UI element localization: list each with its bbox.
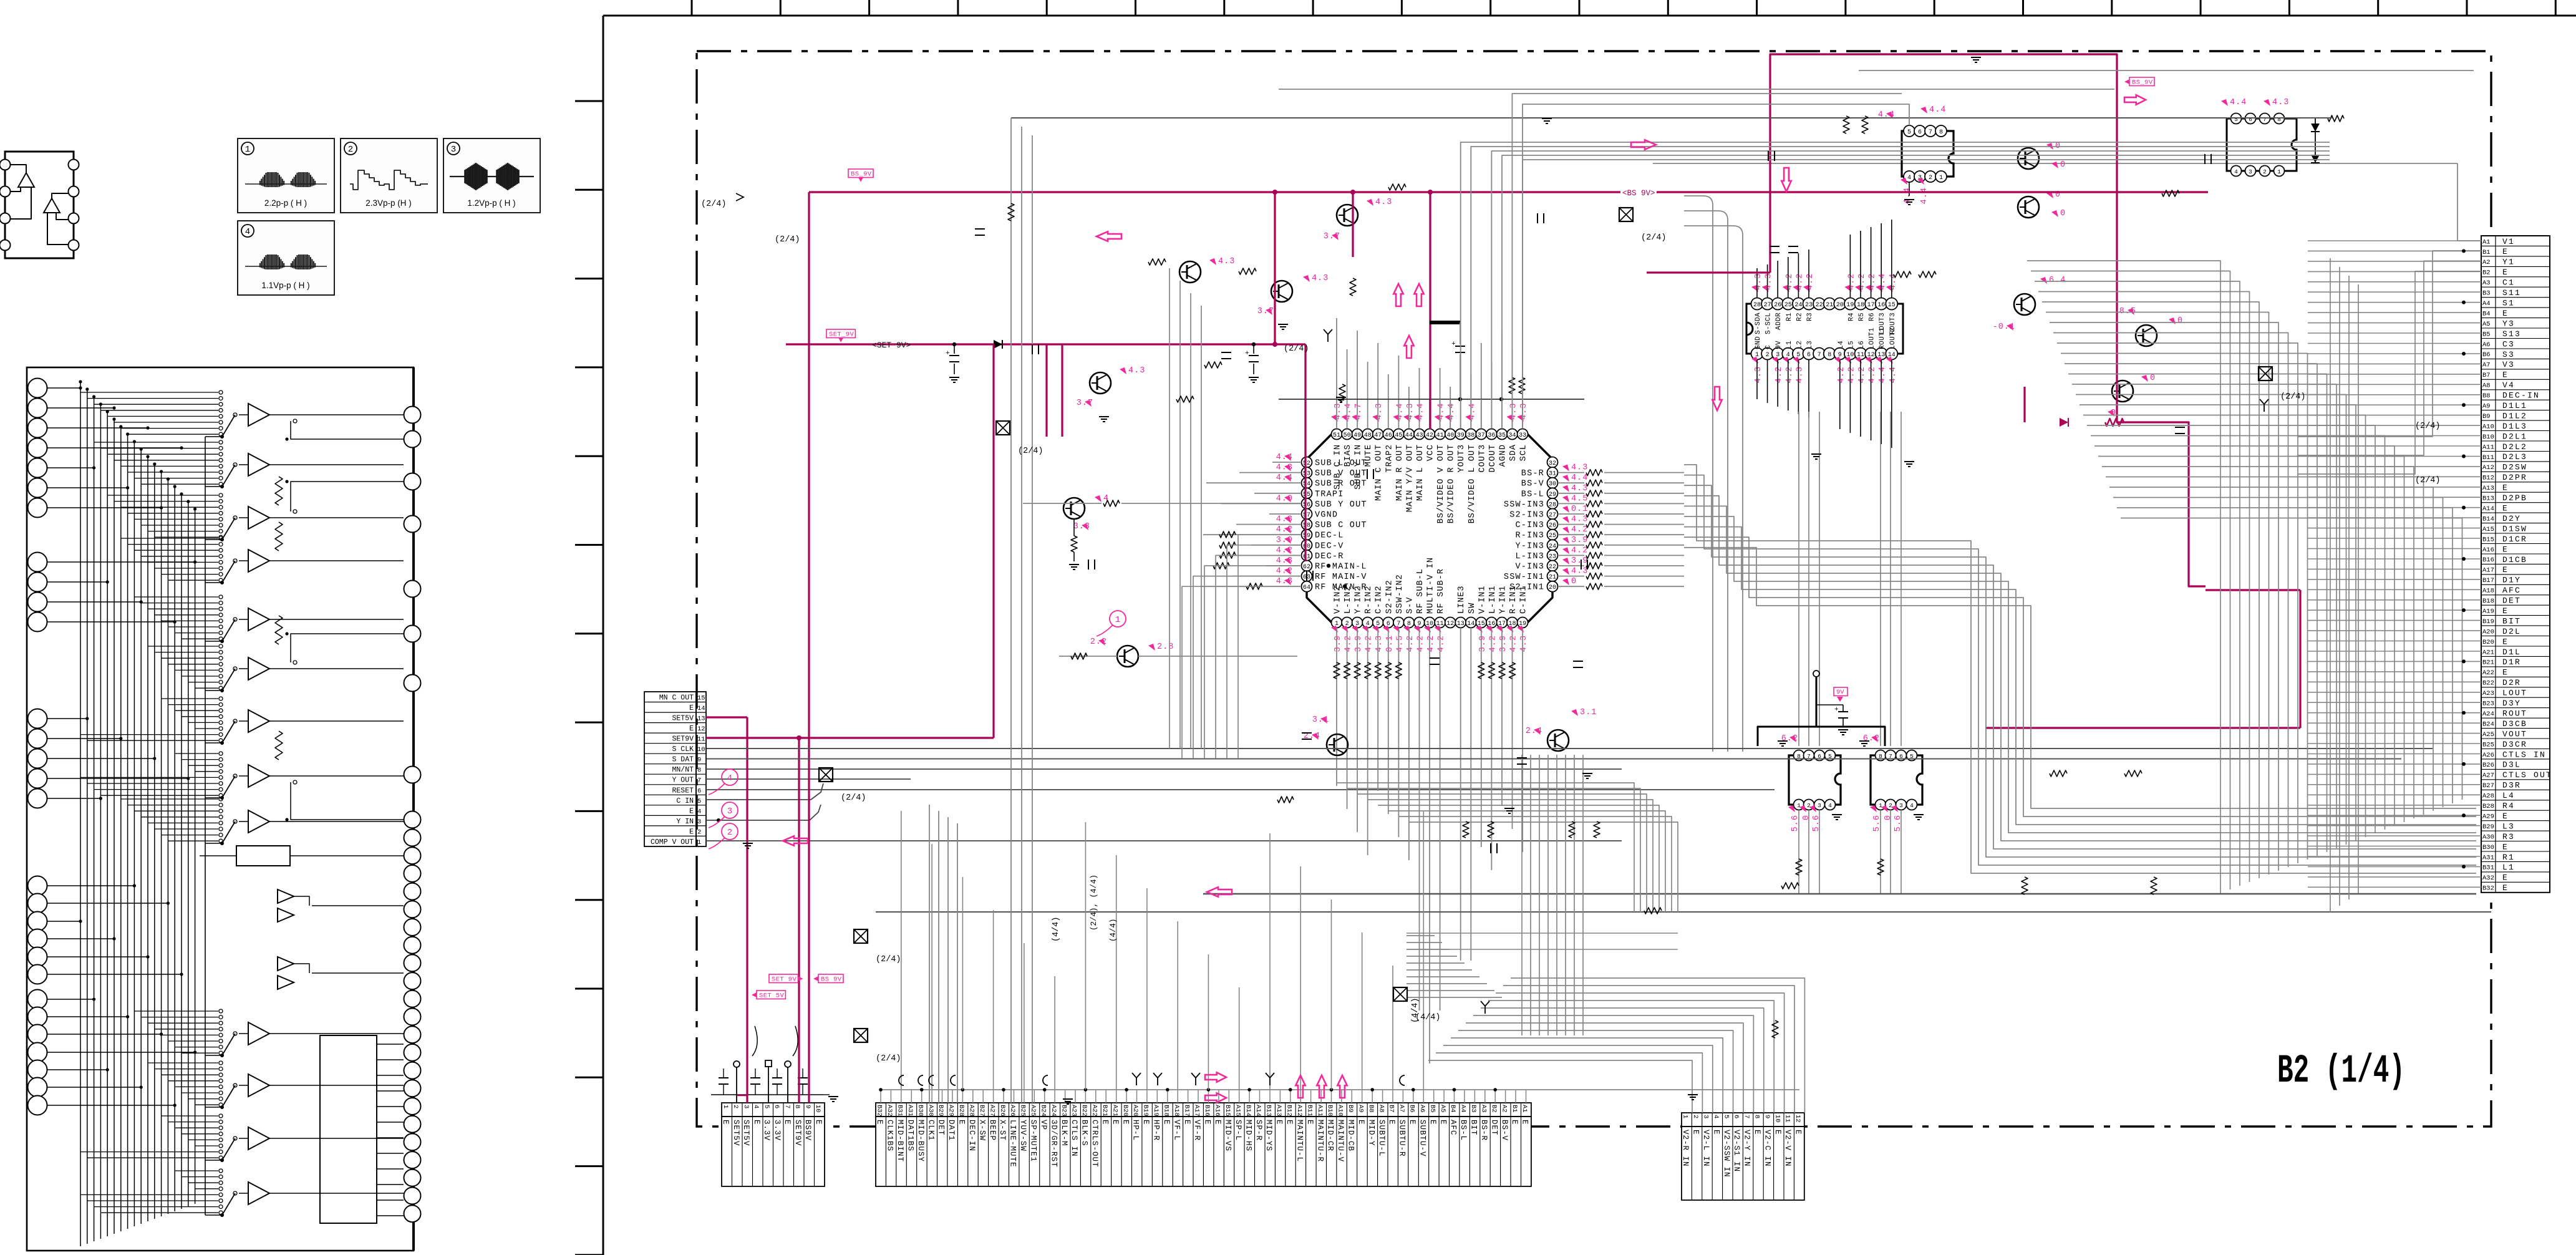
svg-text:MID-VS: MID-VS bbox=[1224, 1120, 1232, 1151]
svg-text:A8: A8 bbox=[2482, 382, 2491, 390]
svg-text:4.3: 4.3 bbox=[1375, 198, 1392, 207]
svg-text:A20: A20 bbox=[1131, 1105, 1139, 1117]
svg-text:SCL: SCL bbox=[1519, 444, 1529, 461]
svg-text:B10: B10 bbox=[2482, 434, 2494, 441]
svg-text:44: 44 bbox=[1405, 432, 1413, 439]
svg-text:A5: A5 bbox=[2482, 321, 2491, 328]
svg-text:R4: R4 bbox=[1847, 313, 1855, 321]
svg-text:E: E bbox=[1275, 1120, 1284, 1125]
svg-text:(2/4): (2/4) bbox=[876, 1054, 901, 1064]
svg-text:AGND: AGND bbox=[1499, 444, 1508, 467]
svg-text:9: 9 bbox=[697, 757, 701, 764]
svg-text:VP: VP bbox=[1039, 1120, 1048, 1130]
svg-text:1: 1 bbox=[1939, 175, 1943, 182]
svg-text:R6: R6 bbox=[1869, 313, 1876, 321]
svg-text:Y IN: Y IN bbox=[676, 818, 694, 826]
svg-text:4.2: 4.2 bbox=[1857, 273, 1867, 290]
svg-text:8: 8 bbox=[1753, 1115, 1761, 1118]
svg-text:R3: R3 bbox=[1806, 313, 1814, 321]
svg-text:6.4: 6.4 bbox=[2049, 276, 2066, 285]
svg-text:E: E bbox=[1183, 1120, 1191, 1125]
svg-text:L-IN3: L-IN3 bbox=[1515, 552, 1544, 561]
svg-text:S-V: S-V bbox=[1405, 597, 1415, 614]
svg-text:0: 0 bbox=[2150, 374, 2156, 383]
svg-text:DEC-L: DEC-L bbox=[1315, 531, 1344, 541]
svg-text:MAIN Y/V OUT: MAIN Y/V OUT bbox=[1405, 444, 1415, 512]
CN2 area parts bbox=[711, 1026, 838, 1103]
svg-text:2.4: 2.4 bbox=[1526, 727, 1542, 736]
svg-text:RF MAIN-V: RF MAIN-V bbox=[1315, 573, 1367, 582]
svg-text:7: 7 bbox=[1929, 129, 1932, 136]
svg-text:46: 46 bbox=[1385, 432, 1392, 439]
svg-text:CTLS IN: CTLS IN bbox=[2502, 750, 2546, 759]
svg-text:B31: B31 bbox=[896, 1105, 904, 1117]
svg-text:27: 27 bbox=[1764, 302, 1771, 309]
svg-text:D1L: D1L bbox=[2502, 647, 2521, 657]
svg-text:S13: S13 bbox=[2502, 329, 2521, 339]
board outline dash-dot border bbox=[697, 51, 2491, 1127]
svg-text:BS/VIDEO R OUT: BS/VIDEO R OUT bbox=[1447, 444, 1456, 523]
IC301/302 bottom wires bbox=[1796, 811, 1901, 894]
svg-text:4.2: 4.2 bbox=[1344, 635, 1353, 652]
svg-text:60: 60 bbox=[1303, 543, 1310, 550]
svg-text:B7: B7 bbox=[2482, 372, 2491, 379]
svg-text:E: E bbox=[1203, 1120, 1212, 1125]
svg-text:BS 9V: BS 9V bbox=[821, 976, 842, 984]
svg-text:62: 62 bbox=[1303, 564, 1310, 571]
svg-text:YOUT3: YOUT3 bbox=[1457, 444, 1466, 473]
svg-text:12: 12 bbox=[1794, 1115, 1801, 1123]
svg-text:V-IN2: V-IN2 bbox=[1334, 585, 1343, 614]
svg-text:61: 61 bbox=[1303, 553, 1310, 560]
svg-text:B32: B32 bbox=[876, 1105, 883, 1117]
svg-text:13: 13 bbox=[1457, 621, 1465, 627]
sheet frame left border bbox=[603, 16, 604, 1255]
IC201 top pin wires bbox=[1337, 318, 1523, 428]
svg-text:1: 1 bbox=[697, 839, 701, 846]
svg-text:3.1: 3.1 bbox=[1580, 708, 1597, 717]
svg-text:E: E bbox=[689, 807, 694, 815]
IC IC204 (8-pin) bbox=[2221, 98, 2344, 177]
svg-text:4.3: 4.3 bbox=[1334, 403, 1343, 420]
svg-text:E: E bbox=[1438, 1120, 1447, 1125]
svg-text:(2/4): (2/4) bbox=[841, 793, 866, 803]
svg-text:4.2: 4.2 bbox=[1785, 273, 1794, 290]
svg-text:A23: A23 bbox=[2482, 690, 2494, 697]
svg-text:S-SCL: S-SCL bbox=[1765, 313, 1773, 334]
svg-text:4.2: 4.2 bbox=[1571, 525, 1588, 535]
transistor Q201 bbox=[1179, 261, 1201, 283]
svg-text:3.9: 3.9 bbox=[1334, 635, 1343, 652]
svg-text:64: 64 bbox=[1303, 584, 1310, 591]
svg-text:E: E bbox=[1111, 1120, 1120, 1125]
svg-text:MAINTU-L: MAINTU-L bbox=[1295, 1120, 1304, 1162]
svg-text:R1: R1 bbox=[2502, 853, 2515, 862]
wires from CN rows bbox=[706, 769, 1775, 841]
svg-text:3.9: 3.9 bbox=[1478, 635, 1488, 652]
svg-text:2: 2 bbox=[1807, 802, 1811, 809]
svg-text:5: 5 bbox=[1722, 1115, 1730, 1118]
svg-text:B2: B2 bbox=[2482, 269, 2491, 277]
svg-text:Y-IN2: Y-IN2 bbox=[1354, 585, 1363, 614]
svg-text:E: E bbox=[1213, 1120, 1222, 1125]
svg-text:B7: B7 bbox=[1388, 1105, 1395, 1113]
svg-text:BS-L: BS-L bbox=[1459, 1120, 1468, 1141]
IC201 left pin wires bbox=[1200, 462, 1300, 586]
svg-text:A23: A23 bbox=[1070, 1105, 1078, 1117]
svg-text:BS/VIDEO V OUT: BS/VIDEO V OUT bbox=[1436, 444, 1446, 523]
svg-text:ROUT: ROUT bbox=[2502, 709, 2527, 719]
svg-text:A21: A21 bbox=[2482, 649, 2494, 656]
connector (V2 input, 12-pin) bbox=[1682, 1113, 1804, 1200]
bus right verticals bbox=[1407, 258, 2358, 949]
svg-text:BLK-S: BLK-S bbox=[1080, 1120, 1089, 1146]
svg-text:B25: B25 bbox=[2482, 741, 2494, 749]
svg-text:B6: B6 bbox=[2482, 351, 2491, 359]
svg-text:V2-L IN: V2-L IN bbox=[1702, 1130, 1710, 1167]
svg-text:B8: B8 bbox=[2482, 392, 2491, 400]
svg-text:R1: R1 bbox=[1786, 313, 1793, 321]
svg-text:E: E bbox=[1408, 1120, 1416, 1125]
svg-text:A18: A18 bbox=[2482, 588, 2494, 595]
svg-text:SET_9V: SET_9V bbox=[829, 331, 855, 339]
svg-text:C: C bbox=[1765, 345, 1773, 349]
svg-text:B11: B11 bbox=[2482, 454, 2494, 462]
svg-text:A2: A2 bbox=[2482, 259, 2491, 266]
svg-text:B22: B22 bbox=[2482, 680, 2494, 687]
svg-text:LINE-MUTE: LINE-MUTE bbox=[1009, 1120, 1017, 1168]
power rail BS_9V horizontal bbox=[809, 191, 2208, 193]
svg-text:A4: A4 bbox=[2482, 300, 2491, 308]
svg-text:4.2: 4.2 bbox=[1509, 635, 1519, 652]
svg-text:2: 2 bbox=[1929, 175, 1932, 182]
svg-text:BLK-M: BLK-M bbox=[1060, 1120, 1068, 1146]
waveform legend 4 bbox=[238, 221, 334, 295]
svg-text:18: 18 bbox=[1857, 302, 1864, 309]
svg-text:C IN: C IN bbox=[676, 797, 694, 805]
svg-text:3.3V: 3.3V bbox=[773, 1120, 782, 1141]
svg-text:MAIN L OUT: MAIN L OUT bbox=[1416, 444, 1425, 501]
svg-text:E: E bbox=[1521, 1120, 1529, 1125]
svg-text:35: 35 bbox=[1498, 432, 1506, 439]
svg-text:A22: A22 bbox=[2482, 669, 2494, 677]
svg-text:B8: B8 bbox=[1367, 1105, 1375, 1113]
svg-text:DET: DET bbox=[1489, 1120, 1498, 1136]
svg-text:E: E bbox=[689, 725, 694, 733]
svg-text:S1: S1 bbox=[2502, 299, 2515, 308]
svg-text:4.3: 4.3 bbox=[1406, 403, 1415, 420]
svg-text:D1Y: D1Y bbox=[2502, 576, 2521, 585]
svg-text:A19: A19 bbox=[2482, 608, 2494, 616]
svg-text:E: E bbox=[689, 704, 694, 712]
svg-text:V4: V4 bbox=[2502, 380, 2515, 390]
svg-text:4: 4 bbox=[1907, 175, 1911, 182]
svg-text:D1L3: D1L3 bbox=[2502, 422, 2527, 431]
svg-text:V1: V1 bbox=[2502, 237, 2515, 246]
svg-text:2: 2 bbox=[1889, 802, 1892, 809]
power rail top-right loop bbox=[1770, 54, 2206, 586]
svg-text:3.9: 3.9 bbox=[1571, 556, 1588, 566]
svg-text:A7: A7 bbox=[1398, 1105, 1405, 1113]
svg-text:48: 48 bbox=[1364, 432, 1372, 439]
transistor Q202 bbox=[1271, 281, 1292, 302]
svg-text:A14: A14 bbox=[1254, 1105, 1262, 1117]
svg-text:D2L2: D2L2 bbox=[2502, 442, 2527, 452]
svg-text:6: 6 bbox=[773, 1105, 780, 1108]
svg-text:A8: A8 bbox=[1377, 1105, 1385, 1113]
svg-text:-0.1: -0.1 bbox=[1993, 322, 2015, 332]
svg-text:4: 4 bbox=[1712, 1115, 1720, 1118]
svg-text:58: 58 bbox=[1303, 523, 1310, 530]
svg-text:10: 10 bbox=[1773, 1115, 1781, 1123]
svg-text:CLK1BS: CLK1BS bbox=[886, 1120, 894, 1151]
waveform legend 1 bbox=[238, 138, 334, 213]
svg-text:BIT: BIT bbox=[2502, 616, 2521, 626]
svg-text:1: 1 bbox=[1115, 615, 1120, 625]
svg-text:A20: A20 bbox=[2482, 628, 2494, 636]
svg-text:B28: B28 bbox=[2482, 803, 2494, 810]
svg-text:4.4: 4.4 bbox=[1447, 403, 1456, 420]
svg-text:4.4: 4.4 bbox=[1437, 403, 1446, 420]
svg-text:49: 49 bbox=[1353, 432, 1361, 439]
svg-text:SUBTU-R: SUBTU-R bbox=[1398, 1120, 1407, 1157]
bus top horizontal wires bbox=[707, 118, 2491, 912]
svg-text:B17: B17 bbox=[1183, 1105, 1190, 1117]
svg-text:6: 6 bbox=[1733, 1115, 1740, 1118]
svg-text:A2: A2 bbox=[1500, 1105, 1508, 1113]
svg-text:DEC-IN: DEC-IN bbox=[967, 1120, 976, 1151]
pink circled refs bbox=[722, 823, 738, 840]
power rail SET9V vertical bbox=[1304, 344, 1306, 561]
svg-text:4.2: 4.2 bbox=[1857, 366, 1867, 383]
svg-text:A10: A10 bbox=[2482, 423, 2494, 430]
svg-text:4.4: 4.4 bbox=[1344, 403, 1353, 420]
svg-text:4.3: 4.3 bbox=[1519, 403, 1529, 420]
power rail BS_9V label bbox=[848, 169, 873, 178]
svg-text:8: 8 bbox=[697, 767, 701, 774]
svg-text:9: 9 bbox=[1763, 1115, 1771, 1118]
svg-text:DEC-V: DEC-V bbox=[1315, 541, 1344, 551]
svg-text:C-IN3: C-IN3 bbox=[1515, 521, 1544, 530]
svg-text:E: E bbox=[1692, 1130, 1700, 1135]
svg-text:3: 3 bbox=[727, 807, 732, 816]
svg-text:4.2: 4.2 bbox=[1437, 635, 1446, 652]
svg-text:E: E bbox=[2502, 873, 2509, 883]
svg-text:B12: B12 bbox=[1286, 1105, 1293, 1117]
matrix input terminals bbox=[28, 379, 47, 1115]
svg-text:L2: L2 bbox=[1796, 341, 1803, 349]
svg-text:D1CR: D1CR bbox=[2502, 535, 2527, 544]
svg-text:R-IN3: R-IN3 bbox=[1515, 531, 1544, 541]
svg-text:4: 4 bbox=[727, 773, 732, 783]
svg-text:A18: A18 bbox=[1173, 1105, 1180, 1117]
svg-text:LINE3: LINE3 bbox=[1457, 585, 1466, 614]
svg-text:BS-L: BS-L bbox=[1521, 490, 1544, 499]
svg-text:29: 29 bbox=[1549, 492, 1556, 498]
svg-text:A32: A32 bbox=[2482, 875, 2494, 882]
svg-text:DCOUT: DCOUT bbox=[1488, 444, 1498, 473]
svg-text:14: 14 bbox=[697, 705, 705, 712]
svg-text:Y-IN1: Y-IN1 bbox=[1499, 585, 1508, 614]
svg-text:12: 12 bbox=[697, 725, 705, 733]
svg-text:MID-BINT: MID-BINT bbox=[896, 1120, 904, 1162]
svg-text:B3: B3 bbox=[2482, 290, 2491, 298]
svg-text:B17: B17 bbox=[2482, 577, 2494, 584]
bus right connector stubs bbox=[2308, 241, 2481, 887]
svg-text:11: 11 bbox=[1784, 1115, 1791, 1123]
svg-text:A26: A26 bbox=[2482, 752, 2494, 759]
svg-text:SUB Y OUT: SUB Y OUT bbox=[1315, 500, 1367, 510]
svg-text:X-SW: X-SW bbox=[977, 1120, 986, 1141]
matrix filter block bbox=[236, 846, 290, 866]
svg-text:SSW-IN3: SSW-IN3 bbox=[1504, 500, 1544, 510]
svg-text:R5: R5 bbox=[1858, 313, 1866, 321]
svg-text:L-IN2: L-IN2 bbox=[1344, 585, 1353, 614]
IC block (top-left overview) bbox=[0, 152, 79, 258]
svg-text:23: 23 bbox=[1805, 302, 1813, 309]
svg-text:SET 9V: SET 9V bbox=[772, 976, 797, 984]
IC IC302 (8-pin) bbox=[1859, 734, 1924, 831]
svg-text:4.3: 4.3 bbox=[2272, 98, 2289, 107]
svg-text:9V: 9V bbox=[1775, 341, 1783, 349]
svg-text:21: 21 bbox=[1826, 302, 1833, 309]
svg-text:TRAP2: TRAP2 bbox=[1385, 444, 1394, 473]
svg-text:4.2: 4.2 bbox=[1426, 635, 1436, 652]
svg-text:4.2: 4.2 bbox=[1868, 366, 1877, 383]
svg-text:1: 1 bbox=[2277, 168, 2281, 175]
svg-text:D1SW: D1SW bbox=[2502, 524, 2527, 533]
svg-text:8: 8 bbox=[1828, 352, 1831, 359]
svg-text:4: 4 bbox=[752, 1105, 760, 1108]
svg-text:3: 3 bbox=[451, 145, 456, 155]
svg-text:E: E bbox=[2502, 668, 2509, 677]
svg-text:E: E bbox=[783, 1120, 792, 1125]
resistor sprinkles bbox=[1148, 259, 1166, 265]
svg-text:BS_9V: BS_9V bbox=[2132, 79, 2153, 87]
svg-text:VOUT: VOUT bbox=[2502, 729, 2527, 739]
svg-text:B27: B27 bbox=[978, 1105, 985, 1117]
power rail BS_9V vertical drop bbox=[808, 192, 810, 1103]
svg-text:R3: R3 bbox=[2502, 832, 2515, 841]
svg-text:COUT3: COUT3 bbox=[1478, 444, 1487, 473]
IC201 bottom pin wires bbox=[1334, 629, 1523, 1064]
wire rounded bends near IC202 bbox=[1684, 196, 1743, 752]
svg-text:HP-R: HP-R bbox=[1152, 1120, 1161, 1141]
svg-text:B4: B4 bbox=[1449, 1105, 1456, 1113]
svg-text:SET9V: SET9V bbox=[793, 1120, 802, 1146]
svg-text:52: 52 bbox=[1303, 460, 1310, 467]
power rail bottom ICs bbox=[1985, 727, 2300, 729]
svg-text:20: 20 bbox=[1549, 584, 1556, 591]
svg-text:L-IN1: L-IN1 bbox=[1488, 585, 1498, 614]
svg-text:L4: L4 bbox=[2502, 791, 2515, 800]
svg-text:1: 1 bbox=[1682, 1115, 1689, 1118]
svg-text:SET5V: SET5V bbox=[732, 1120, 740, 1146]
svg-text:A17: A17 bbox=[2482, 567, 2494, 574]
svg-text:3D/GR-RST: 3D/GR-RST bbox=[1049, 1120, 1058, 1168]
svg-text:4.2: 4.2 bbox=[1571, 546, 1588, 555]
svg-text:1: 1 bbox=[245, 145, 250, 155]
svg-text:D3Y: D3Y bbox=[2502, 699, 2521, 708]
svg-text:B19: B19 bbox=[1142, 1105, 1150, 1117]
matrix crosspoint bus bbox=[47, 380, 196, 1246]
svg-text:(4/4): (4/4) bbox=[1052, 916, 1061, 942]
svg-text:B6: B6 bbox=[1408, 1105, 1416, 1113]
IC IC301 (8-pin) bbox=[1778, 734, 1842, 831]
svg-text:BS-R: BS-R bbox=[1479, 1120, 1488, 1141]
svg-text:D2L: D2L bbox=[2502, 627, 2521, 636]
svg-text:V2-V IN: V2-V IN bbox=[1783, 1130, 1792, 1167]
svg-text:A26: A26 bbox=[1009, 1105, 1016, 1117]
svg-text:A24: A24 bbox=[1050, 1105, 1057, 1117]
ruler ticks left bbox=[575, 101, 603, 1255]
svg-text:DEC-R: DEC-R bbox=[1315, 552, 1344, 561]
svg-text:20: 20 bbox=[1836, 302, 1844, 309]
svg-text:V2-Y IN: V2-Y IN bbox=[1743, 1130, 1751, 1167]
9V supply label bbox=[1758, 671, 1885, 746]
svg-text:E: E bbox=[2502, 637, 2509, 646]
svg-text:A29: A29 bbox=[947, 1105, 955, 1117]
svg-text:E: E bbox=[1773, 1130, 1782, 1135]
svg-text:31: 31 bbox=[1549, 471, 1556, 478]
svg-text:4.3: 4.3 bbox=[1312, 274, 1329, 283]
IC201 pin voltages (bottom) bbox=[1331, 626, 1529, 652]
svg-text:4.3: 4.3 bbox=[1375, 403, 1384, 420]
svg-text:B14: B14 bbox=[2482, 515, 2494, 523]
svg-text:E: E bbox=[1121, 1120, 1130, 1125]
svg-text:7: 7 bbox=[1743, 1115, 1750, 1118]
svg-text:4: 4 bbox=[697, 808, 701, 815]
svg-text:B24: B24 bbox=[1039, 1105, 1047, 1117]
svg-text:E: E bbox=[2502, 483, 2509, 493]
svg-text:10: 10 bbox=[814, 1105, 821, 1113]
svg-text:34: 34 bbox=[1508, 432, 1516, 439]
svg-text:MULTI-V IN: MULTI-V IN bbox=[1426, 557, 1436, 614]
svg-text:B32: B32 bbox=[2482, 885, 2494, 893]
svg-text:+: + bbox=[1834, 706, 1839, 714]
IC IC203 (8-pin) bbox=[1878, 105, 1954, 205]
svg-text:A31: A31 bbox=[906, 1105, 914, 1117]
svg-text:2: 2 bbox=[2263, 168, 2267, 175]
svg-text:VCC: VCC bbox=[1426, 444, 1436, 461]
svg-text:30: 30 bbox=[1549, 481, 1556, 488]
svg-text:MAIN C OUT: MAIN C OUT bbox=[1375, 444, 1384, 501]
connector (B2 board edge, 64-pin) bbox=[2481, 236, 2552, 893]
svg-text:(2/4): (2/4) bbox=[876, 955, 901, 964]
svg-text:E: E bbox=[957, 1120, 966, 1125]
svg-text:13: 13 bbox=[697, 715, 705, 723]
svg-text:47: 47 bbox=[1374, 432, 1382, 439]
bus bottom nest to connectors bbox=[1407, 936, 1804, 1113]
svg-text:A9: A9 bbox=[1357, 1105, 1365, 1113]
svg-text:B22: B22 bbox=[1080, 1105, 1088, 1117]
svg-text:V2-R IN: V2-R IN bbox=[1681, 1130, 1690, 1167]
svg-text:A5: A5 bbox=[1439, 1105, 1446, 1113]
transistor Q301 bbox=[2018, 148, 2039, 169]
svg-text:B9: B9 bbox=[1347, 1105, 1354, 1113]
svg-text:CTLS IN: CTLS IN bbox=[1070, 1120, 1078, 1157]
svg-text:4.3: 4.3 bbox=[1276, 577, 1293, 586]
switch matrix block outline bbox=[27, 367, 414, 1251]
power rail SET 9V horizontal bbox=[786, 343, 1305, 345]
svg-text:B4: B4 bbox=[2482, 310, 2491, 317]
svg-text:E: E bbox=[752, 1120, 761, 1125]
svg-text:A27: A27 bbox=[988, 1105, 995, 1117]
svg-text:E: E bbox=[2502, 371, 2509, 380]
svg-text:4.3: 4.3 bbox=[1571, 463, 1588, 473]
svg-text:3.3: 3.3 bbox=[1073, 522, 1090, 531]
svg-text:R-IN1: R-IN1 bbox=[1509, 585, 1518, 614]
